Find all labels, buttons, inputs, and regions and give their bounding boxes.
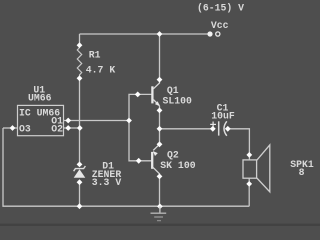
capacitor C1 xyxy=(210,121,231,136)
junction base bus bottom xyxy=(136,158,142,164)
wire C1 to speaker xyxy=(228,129,250,160)
junction pin O1 xyxy=(65,118,71,124)
resistor R1 xyxy=(77,42,83,81)
junction speaker top xyxy=(246,152,252,158)
wire Q1 emitter to Q2 emitter xyxy=(159,106,161,145)
junction O1 / base bus xyxy=(126,118,132,124)
junction zener column / ground rail xyxy=(77,203,83,209)
junction ground rail / Q2 collector xyxy=(157,204,163,210)
wire speaker bottom drop xyxy=(248,178,250,206)
svg-text:SL100: SL100 xyxy=(163,95,193,106)
wire output node to C1 xyxy=(160,128,214,130)
junction O2 / zener column xyxy=(77,125,83,131)
wire R1 top stub xyxy=(79,34,81,46)
junction output node xyxy=(157,126,163,132)
wire Q2 collector to ground rail xyxy=(159,174,161,207)
wire top supply rail xyxy=(80,33,211,35)
wire pin O2 to zener column xyxy=(64,127,81,129)
speaker SPK1 xyxy=(243,145,270,192)
svg-text:Q2: Q2 xyxy=(167,149,179,160)
svg-text:R1: R1 xyxy=(89,49,101,60)
transistor Q1 SL100 xyxy=(152,77,162,114)
svg-text:O2: O2 xyxy=(51,123,63,134)
zener diode D1 xyxy=(74,162,86,186)
wire Vcc branch vertical to Q1 collector xyxy=(159,34,161,80)
wire left ground drop xyxy=(3,128,249,206)
ground xyxy=(151,206,167,220)
svg-text:SK 100: SK 100 xyxy=(160,160,195,171)
svg-text:(6-15) V: (6-15) V xyxy=(197,3,244,14)
junction pin O2 xyxy=(65,125,71,131)
junction speaker bottom xyxy=(246,181,252,187)
wire R1 bottom to zener column xyxy=(79,78,81,165)
svg-text:Vcc: Vcc xyxy=(211,20,229,31)
transistor Q2 SK100 xyxy=(152,141,162,179)
svg-text:UM66: UM66 xyxy=(28,93,52,104)
junction base bus top xyxy=(135,92,141,98)
wire zener bottom to ground rail xyxy=(79,182,81,206)
wire pin O1 to base node xyxy=(64,120,130,122)
IC U1 UM66 xyxy=(18,105,64,135)
svg-text:3.3 V: 3.3 V xyxy=(92,177,122,188)
junction top rail / collector branch xyxy=(157,31,163,37)
svg-text:4.7 K: 4.7 K xyxy=(86,65,116,76)
wire pin O3 stub left xyxy=(3,127,18,129)
bottom shading xyxy=(0,224,320,226)
svg-text:O3: O3 xyxy=(19,123,31,134)
junction pin O3 xyxy=(10,125,16,131)
svg-text:10uF: 10uF xyxy=(211,111,235,122)
node Vcc terminal xyxy=(207,31,220,36)
svg-text:8: 8 xyxy=(299,167,305,178)
wire base bus vertical xyxy=(129,94,153,160)
